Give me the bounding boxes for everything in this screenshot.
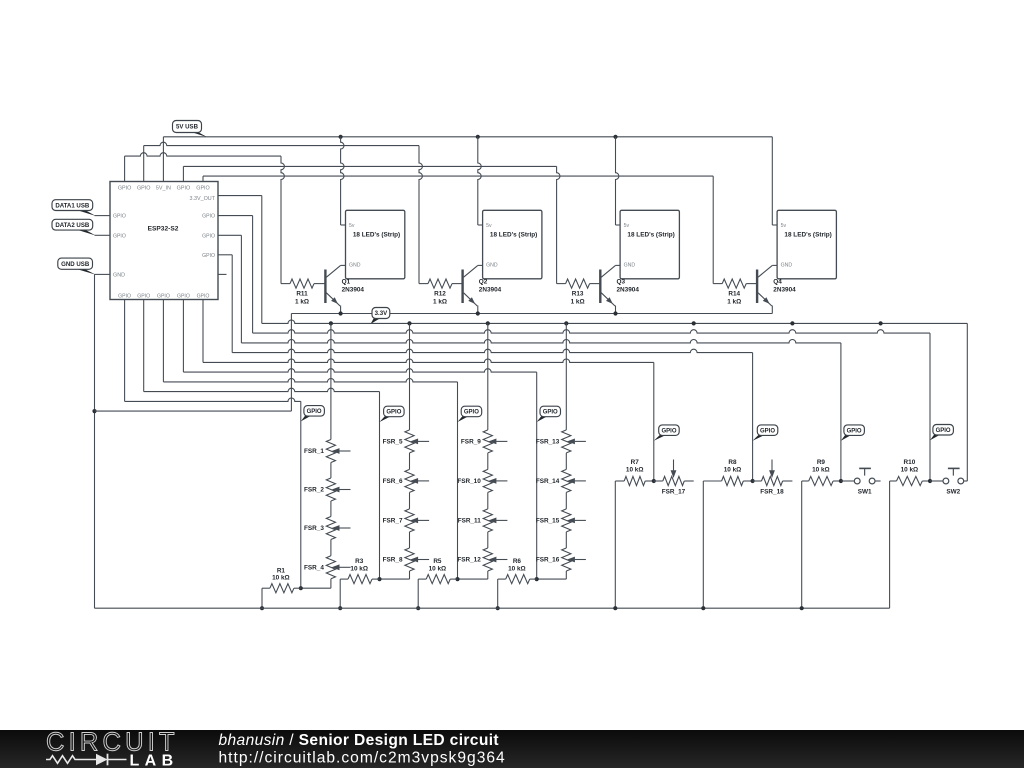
FSR sensor FSR_3 xyxy=(304,517,350,540)
svg-text:R9: R9 xyxy=(817,459,826,466)
junction column 2 sense xyxy=(377,577,381,581)
svg-text:10 kΩ: 10 kΩ xyxy=(508,565,526,572)
svg-text:2N3904: 2N3904 xyxy=(773,286,796,293)
resistor R1 10 k&#937; xyxy=(262,567,301,608)
svg-text:GND: GND xyxy=(486,263,498,269)
svg-text:5v: 5v xyxy=(624,223,630,229)
svg-text:3.3V_OUT: 3.3V_OUT xyxy=(190,196,216,202)
svg-text:FSR_13: FSR_13 xyxy=(536,439,560,446)
svg-text:LAB: LAB xyxy=(130,753,179,768)
junction R8 on ground rail xyxy=(701,606,705,610)
footer bar xyxy=(0,730,1024,768)
svg-text:R14: R14 xyxy=(728,291,740,298)
junction 5V rail strip2 xyxy=(476,135,480,139)
resistor R9 10 k&#937; xyxy=(802,459,841,608)
FSR sensor FSR_10 xyxy=(457,469,507,492)
CircuitLab logo xyxy=(46,729,179,768)
svg-text:Q2: Q2 xyxy=(479,278,488,285)
FSR sensor FSR_11 xyxy=(458,509,508,532)
svg-text:5V USB: 5V USB xyxy=(176,124,199,131)
transistor Q2 2N3904 xyxy=(463,265,502,313)
node GPIO xyxy=(380,416,392,422)
svg-text:GPIO: GPIO xyxy=(137,186,150,192)
svg-text:5V_IN: 5V_IN xyxy=(156,186,171,192)
junction column 3 sense xyxy=(455,577,459,581)
junction R8 / FSR_18 GPIO xyxy=(751,479,755,483)
node GPIO xyxy=(753,435,766,441)
wire 5V_IN drop xyxy=(162,137,164,182)
FSR sensor FSR_6 xyxy=(383,469,429,492)
junction R10 / SW2 GPIO xyxy=(928,479,932,483)
junction column 4 sense xyxy=(535,577,539,581)
svg-text:GPIO: GPIO xyxy=(196,186,209,192)
svg-text:GPIO: GPIO xyxy=(847,428,862,434)
wire ESP32 GPIO via L2 to SW2 GPIO xyxy=(218,215,253,217)
wire ESP32 GPIO to R11 xyxy=(124,156,126,181)
svg-text:GPIO: GPIO xyxy=(197,294,210,300)
LED strip module 2: 18 LED's (Strip) xyxy=(483,210,542,278)
svg-text:5v: 5v xyxy=(486,223,492,229)
junction Q1 emitter on rail xyxy=(339,311,343,315)
svg-text:10 kΩ: 10 kΩ xyxy=(350,565,368,572)
node GPIO xyxy=(841,435,852,441)
wire column 4 row xyxy=(537,578,567,580)
svg-text:5v: 5v xyxy=(349,223,355,229)
transistor Q1 2N3904 xyxy=(325,265,364,313)
svg-text:FSR_12: FSR_12 xyxy=(457,557,481,564)
svg-text:R8: R8 xyxy=(728,459,737,466)
junction on 3.3V rail xyxy=(407,321,411,325)
node GPIO xyxy=(930,434,941,440)
resistor R13 1 k&#937; xyxy=(557,279,601,306)
svg-text:2N3904: 2N3904 xyxy=(479,286,502,293)
svg-text:FSR_11: FSR_11 xyxy=(458,518,482,525)
node DATA2 USB xyxy=(75,229,96,235)
svg-text:18 LED's (Strip): 18 LED's (Strip) xyxy=(490,231,537,238)
wire ESP32 GPIO via L9 to column1 sense xyxy=(124,300,126,402)
svg-text:18 LED's (Strip): 18 LED's (Strip) xyxy=(784,231,831,238)
svg-text:3.3V: 3.3V xyxy=(375,310,388,317)
svg-text:18 LED's (Strip): 18 LED's (Strip) xyxy=(627,231,674,238)
svg-text:10 kΩ: 10 kΩ xyxy=(429,565,447,572)
junction R6 on ground rail xyxy=(496,606,500,610)
FSR sensor FSR_1 xyxy=(304,440,350,463)
svg-text:FSR_17: FSR_17 xyxy=(662,488,686,495)
svg-text:R13: R13 xyxy=(572,291,584,298)
junction on 3.3V rail xyxy=(329,321,333,325)
wire 3.3V to FSR column 4 xyxy=(565,323,567,579)
wire 3.3V to FSR column 1 xyxy=(330,323,332,588)
svg-text:1 kΩ: 1 kΩ xyxy=(727,299,741,306)
svg-text:FSR_5: FSR_5 xyxy=(383,439,403,446)
svg-text:FSR_18: FSR_18 xyxy=(760,488,784,495)
wire 5V to strip3 5v pin xyxy=(616,137,619,225)
FSR sensor FSR_9 xyxy=(461,430,507,453)
svg-text:5v: 5v xyxy=(781,223,787,229)
wire 3.3V rail L1 xyxy=(262,320,968,323)
wire ESP32 GPIO via L5 to FSR_17 GPIO xyxy=(202,300,204,363)
svg-text:FSR_4: FSR_4 xyxy=(304,565,324,572)
svg-text:1 kΩ: 1 kΩ xyxy=(571,299,585,306)
svg-text:GPIO: GPIO xyxy=(307,409,322,415)
junction Q3 emitter on rail xyxy=(613,311,617,315)
FSR sensor FSR_17 xyxy=(654,460,694,496)
wire ESP32 GPIO to R12 xyxy=(143,146,145,182)
junction on 3.3V rail xyxy=(790,321,794,325)
svg-text:FSR_15: FSR_15 xyxy=(536,518,560,525)
svg-text:GPIO: GPIO xyxy=(177,186,190,192)
resistor R10 10 k&#937; xyxy=(890,459,930,608)
svg-text:FSR_10: FSR_10 xyxy=(457,478,481,485)
wire 5V to strip4 5v pin xyxy=(771,137,773,225)
wire ESP32 GPIO to R14 xyxy=(202,176,204,181)
node DATA1 USB xyxy=(75,210,96,216)
node GPIO xyxy=(458,416,470,422)
svg-text:GPIO: GPIO xyxy=(202,233,215,239)
svg-text:GPIO: GPIO xyxy=(760,428,775,434)
FSR sensor FSR_15 xyxy=(536,509,586,532)
wire 3.3V_OUT to 3.3V rail L1 xyxy=(218,195,262,197)
svg-text:FSR_9: FSR_9 xyxy=(461,439,481,446)
svg-text:GPIO: GPIO xyxy=(464,410,479,416)
svg-text:10 kΩ: 10 kΩ xyxy=(724,467,742,474)
wire ESP32 GPIO via L7 to column3 sense xyxy=(162,300,164,382)
junction on 3.3V rail xyxy=(564,321,568,325)
svg-text:FSR_6: FSR_6 xyxy=(383,478,403,485)
FSR sensor FSR_18 xyxy=(753,460,793,496)
svg-text:2N3904: 2N3904 xyxy=(342,286,365,293)
transistor Q4 2N3904 xyxy=(757,265,796,313)
svg-text:R10: R10 xyxy=(904,459,916,466)
LED strip module 3: 18 LED's (Strip) xyxy=(620,210,679,278)
wire 3.3V to FSR column 2 xyxy=(409,323,411,579)
ESP32-S2 module xyxy=(110,182,218,300)
resistor R14 1 k&#937; xyxy=(713,279,757,306)
resistor R5 10 k&#937; xyxy=(418,558,457,608)
junction R5 on ground rail xyxy=(416,606,420,610)
wire ESP32 GPIO via L4 to FSR_18 GPIO xyxy=(218,254,232,256)
resistor R8 10 k&#937; xyxy=(703,459,752,608)
wire 5V to strip1 5v pin xyxy=(341,137,344,225)
wire GND USB to ESP32 GND and down to ground rail xyxy=(95,273,111,275)
wire ESP32 GPIO via L8 to column2 sense xyxy=(143,300,145,392)
resistor R6 10 k&#937; xyxy=(498,558,537,608)
junction GND wire / L10 xyxy=(92,409,96,413)
junction on 3.3V rail xyxy=(692,321,696,325)
svg-text:GPIO: GPIO xyxy=(137,294,150,300)
svg-text:10 kΩ: 10 kΩ xyxy=(812,467,830,474)
resistor R11 1 k&#937; xyxy=(281,279,325,306)
junction on 3.3V rail xyxy=(879,321,883,325)
junction R1 on ground rail xyxy=(260,606,264,610)
junction Q2 emitter on rail xyxy=(476,311,480,315)
svg-text:GND: GND xyxy=(781,263,793,269)
resistor R3 10 k&#937; xyxy=(340,558,379,608)
svg-text:FSR_16: FSR_16 xyxy=(536,557,560,564)
svg-text:SW2: SW2 xyxy=(946,488,960,495)
svg-text:Q1: Q1 xyxy=(342,278,351,285)
wire 3.3V to FSR column 3 xyxy=(487,323,489,579)
junction R3 on ground rail xyxy=(338,606,342,610)
FSR sensor FSR_8 xyxy=(383,548,429,571)
svg-text:GPIO: GPIO xyxy=(386,410,401,416)
svg-text:FSR_8: FSR_8 xyxy=(383,557,403,564)
svg-text:R11: R11 xyxy=(296,291,308,298)
svg-text:GPIO: GPIO xyxy=(113,233,126,239)
LED strip module 1: 18 LED's (Strip) xyxy=(346,210,405,278)
wire ground rail xyxy=(95,607,890,609)
svg-text:R12: R12 xyxy=(434,291,446,298)
wire column 1 row xyxy=(301,587,331,589)
svg-text:10 kΩ: 10 kΩ xyxy=(901,467,919,474)
junction 5V rail strip1 xyxy=(339,135,343,139)
svg-text:1 kΩ: 1 kΩ xyxy=(433,299,447,306)
svg-text:R7: R7 xyxy=(631,459,640,466)
wire column 2 row xyxy=(380,578,410,580)
svg-text:ESP32-S2: ESP32-S2 xyxy=(148,225,179,232)
svg-text:GND: GND xyxy=(349,263,361,269)
svg-text:GPIO: GPIO xyxy=(202,253,215,259)
FSR sensor FSR_12 xyxy=(457,548,507,571)
node GPIO xyxy=(537,416,548,422)
svg-text:GPIO: GPIO xyxy=(118,186,131,192)
node GPIO xyxy=(301,415,312,421)
svg-text:FSR_1: FSR_1 xyxy=(304,448,324,455)
svg-text:bhanusin / Senior Design LED c: bhanusin / Senior Design LED circuit xyxy=(219,732,499,749)
svg-text:DATA1 USB: DATA1 USB xyxy=(55,202,90,209)
transistor Q3 2N3904 xyxy=(600,265,639,313)
junction on 3.3V rail xyxy=(486,321,490,325)
svg-text:GND: GND xyxy=(624,263,636,269)
svg-text:Q4: Q4 xyxy=(773,278,782,285)
junction 5V rail strip3 xyxy=(613,135,617,139)
FSR sensor FSR_4 xyxy=(304,556,350,579)
junction R9 on ground rail xyxy=(800,606,804,610)
svg-text:10 kΩ: 10 kΩ xyxy=(272,574,290,581)
resistor R12 1 k&#937; xyxy=(419,279,463,306)
wire ESP32 GPIO via L6 to column4 sense xyxy=(182,300,184,373)
svg-text:2N3904: 2N3904 xyxy=(617,286,640,293)
svg-text:R1: R1 xyxy=(277,567,286,574)
FSR sensor FSR_2 xyxy=(304,478,350,501)
node GPIO xyxy=(654,435,667,441)
node GND USB xyxy=(74,268,96,274)
FSR sensor FSR_7 xyxy=(383,509,429,532)
svg-text:GPIO: GPIO xyxy=(661,428,676,434)
svg-text:GPIO: GPIO xyxy=(936,428,951,434)
svg-text:DATA2 USB: DATA2 USB xyxy=(55,222,90,229)
svg-text:Q3: Q3 xyxy=(617,278,626,285)
svg-text:GPIO: GPIO xyxy=(543,410,558,416)
wire 5V rail xyxy=(163,136,772,138)
svg-text:R3: R3 xyxy=(355,558,364,565)
svg-text:FSR_7: FSR_7 xyxy=(383,518,403,525)
svg-text:GND USB: GND USB xyxy=(61,261,90,268)
svg-text:18 LED's (Strip): 18 LED's (Strip) xyxy=(353,231,400,238)
ESP32 unconnected pin stub xyxy=(218,273,227,275)
wire DATA2 USB to ESP32 GPIO xyxy=(95,234,111,236)
svg-text:FSR_2: FSR_2 xyxy=(304,487,324,494)
wire L10 ground link xyxy=(95,410,292,412)
FSR sensor FSR_13 xyxy=(536,430,586,453)
node 5V USB xyxy=(188,131,208,137)
wire ESP32 GPIO to R13 xyxy=(182,166,184,181)
svg-text:GND: GND xyxy=(113,273,125,279)
svg-text:http://circuitlab.com/c2m3vpsk: http://circuitlab.com/c2m3vpsk9g364 xyxy=(219,749,506,766)
svg-text:GPIO: GPIO xyxy=(177,294,190,300)
junction R7 on ground rail xyxy=(613,606,617,610)
svg-text:FSR_14: FSR_14 xyxy=(536,478,560,485)
svg-text:1 kΩ: 1 kΩ xyxy=(295,299,309,306)
wire DATA1 USB to ESP32 GPIO xyxy=(95,215,111,217)
svg-text:GPIO: GPIO xyxy=(202,214,215,220)
svg-text:GPIO: GPIO xyxy=(157,294,170,300)
node 3.3V xyxy=(371,318,382,324)
svg-text:GPIO: GPIO xyxy=(113,214,126,220)
resistor R7 10 k&#937; xyxy=(615,459,654,608)
switch SW2 xyxy=(930,468,967,495)
wire emitter ground rail xyxy=(291,313,772,315)
wire ESP32 GPIO via L3 to SW1 GPIO xyxy=(218,234,241,236)
wire 5V to strip2 5v pin xyxy=(478,137,481,225)
wire column 3 row xyxy=(458,578,488,580)
svg-text:FSR_3: FSR_3 xyxy=(304,525,324,532)
junction R9 / SW1 GPIO xyxy=(839,479,843,483)
svg-text:SW1: SW1 xyxy=(858,488,872,495)
svg-text:R5: R5 xyxy=(433,558,442,565)
LED strip module 4: 18 LED's (Strip) xyxy=(777,210,836,278)
FSR sensor FSR_14 xyxy=(536,469,586,492)
svg-text:10 kΩ: 10 kΩ xyxy=(626,467,644,474)
FSR sensor FSR_5 xyxy=(383,430,429,453)
junction R7 / FSR_17 GPIO xyxy=(652,479,656,483)
FSR sensor FSR_16 xyxy=(536,548,586,571)
svg-text:GPIO: GPIO xyxy=(118,294,131,300)
switch SW1 xyxy=(841,468,881,495)
svg-text:R6: R6 xyxy=(513,558,522,565)
junction column 1 sense xyxy=(299,586,303,590)
